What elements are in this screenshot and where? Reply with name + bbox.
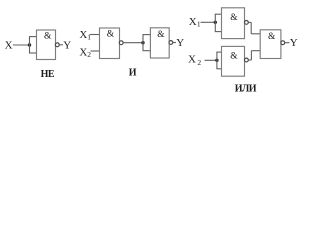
gate DD2.2 (NAND as NOT) [150, 28, 169, 58]
wire lower branch [143, 50, 151, 52]
svg-text:&: & [230, 13, 238, 23]
wire X2 to junction [205, 59, 217, 61]
wire to Y [59, 44, 63, 46]
junction dot [214, 21, 217, 24]
inversion bubble DD2.2 [169, 41, 173, 45]
gate DD3.1 (NAND as NOT) [222, 8, 245, 39]
gate DD1 (NAND as NOT) [37, 30, 56, 60]
svg-text:X: X [189, 16, 197, 28]
inversion bubble DD1 [55, 43, 59, 47]
inversion bubble DD3.2 [245, 58, 249, 62]
wire up to lower input [250, 51, 252, 60]
wire DD2.1 out to junction [123, 42, 143, 44]
junction dot [141, 41, 144, 44]
wire lower branch [216, 68, 221, 70]
svg-text:X: X [5, 40, 13, 52]
wire X1 to junction [201, 21, 216, 23]
wire split bar [142, 35, 144, 51]
gate DD3.3 (NAND) [260, 30, 281, 59]
svg-text:X: X [188, 53, 196, 65]
svg-text:НЕ: НЕ [41, 69, 55, 80]
wire upper branch [215, 13, 222, 15]
wire X2 input [91, 50, 100, 52]
wire to Y [285, 42, 290, 44]
gate DD2.1 (NAND) [100, 28, 120, 59]
wire into DD3.3 upper input [251, 33, 260, 35]
wire DD3.1 out right [248, 21, 251, 23]
svg-text:И: И [129, 67, 137, 78]
wire lower branch [215, 31, 222, 33]
svg-text:Y: Y [63, 40, 71, 52]
wire upper branch [143, 34, 151, 36]
wire upper branch [216, 51, 221, 53]
wire split bar [29, 37, 31, 53]
wire DD3.2 out right [248, 59, 251, 61]
wire down to upper input [250, 22, 252, 33]
svg-text:Y: Y [290, 37, 298, 49]
junction dot [215, 59, 218, 62]
wire split bar [216, 52, 218, 69]
svg-text:&: & [44, 32, 52, 42]
gate DD3.2 (NAND as NOT) [222, 46, 245, 76]
wire split bar [214, 14, 216, 31]
wire X to junction [13, 44, 30, 46]
svg-text:&: & [268, 32, 276, 42]
wire lower branch [29, 52, 37, 54]
wire X1 input [90, 34, 100, 36]
inversion bubble DD3.1 [245, 21, 249, 25]
wire to Y [173, 42, 176, 44]
inversion bubble DD2.1 [119, 41, 123, 45]
wire upper branch [29, 36, 37, 38]
svg-text:&: & [157, 30, 165, 40]
svg-text:2: 2 [197, 58, 201, 67]
wire into DD3.3 lower input [251, 50, 260, 52]
svg-text:&: & [230, 51, 238, 61]
svg-text:X: X [79, 47, 87, 59]
svg-text:1: 1 [87, 33, 91, 42]
svg-text:ИЛИ: ИЛИ [235, 83, 257, 94]
inversion bubble DD3.3 [281, 41, 285, 45]
svg-text:Y: Y [176, 37, 184, 49]
svg-text:1: 1 [197, 19, 201, 28]
svg-text:X: X [79, 29, 87, 41]
svg-text:&: & [107, 30, 115, 40]
junction dot [28, 43, 31, 46]
